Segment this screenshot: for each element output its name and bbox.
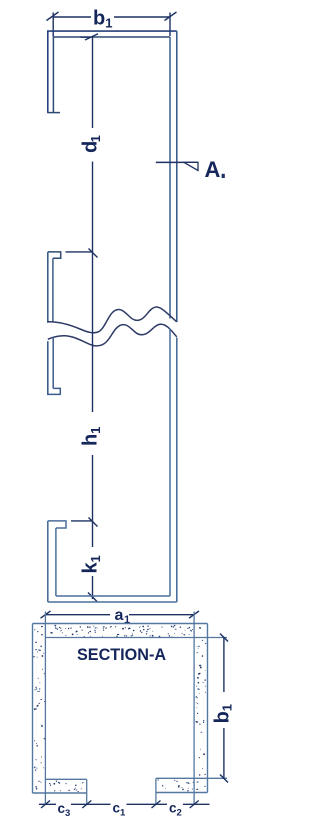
bottom flange inner line [56, 595, 170, 597]
left foot inner vertical [86, 779, 88, 805]
svg-text:1: 1 [88, 555, 103, 562]
web outer line upper [176, 31, 178, 322]
svg-text:1: 1 [220, 704, 235, 711]
web inner line lower [169, 329, 171, 597]
label h1 [80, 434, 102, 446]
web inner line upper [169, 37, 171, 319]
stipple rfoot [158, 779, 206, 791]
svg-text:SECTION-A: SECTION-A [77, 646, 166, 664]
break wave upper [48, 307, 177, 333]
left foot top line [45, 778, 86, 780]
extension to d1 end [66, 251, 93, 253]
section left inner vertical / extension [44, 612, 46, 805]
top lip foot cap [47, 112, 60, 114]
dimension h1 line [89, 252, 98, 527]
section outer box right [207, 624, 209, 793]
section right inner vertical / extension [193, 612, 195, 805]
dimension a1 line [41, 611, 200, 618]
right foot top line with b1 extension [156, 777, 227, 779]
label d1 [80, 135, 103, 153]
small mark after A [222, 174, 225, 178]
svg-text:1: 1 [120, 808, 126, 819]
extension to h1 end [71, 520, 93, 522]
section slab inner line with b1 extension [45, 637, 227, 639]
left inner line segment (hook step to upper wave) [52, 258, 54, 321]
section outer box top [33, 623, 208, 625]
svg-text:b: b [93, 7, 105, 29]
break wave lower [48, 324, 177, 346]
dimension b1 line top [47, 12, 177, 37]
dimension b1 right side [220, 634, 228, 783]
right foot bottom line [156, 792, 208, 794]
svg-text:3: 3 [65, 808, 70, 819]
svg-text:2: 2 [177, 808, 182, 819]
svg-text:b: b [211, 711, 233, 723]
left outer line segment (d1 hook to upper wave) [47, 252, 49, 323]
hook 2 top edge [48, 521, 66, 528]
bottom flange outer line [48, 601, 177, 603]
svg-text:a: a [115, 607, 124, 624]
section cut line A [156, 161, 198, 163]
dimension k1 line [88, 521, 97, 602]
svg-text:h: h [80, 434, 102, 446]
stipple slab [34, 625, 201, 638]
hook 1 top edge [48, 252, 61, 258]
left outer line (lower wave to L foot) [47, 341, 49, 394]
dimension c line [39, 801, 210, 809]
left foot bottom line [33, 792, 87, 794]
section cut flag triangle [184, 162, 198, 170]
svg-text:A: A [205, 157, 221, 182]
dimension d1 line [81, 34, 99, 258]
L foot cap [47, 388, 61, 394]
label b1 section [211, 704, 234, 723]
left inner line (lower wave to L foot) [52, 337, 54, 388]
top flange inner line [53, 37, 170, 113]
label k1 [80, 555, 103, 573]
svg-text:1: 1 [88, 135, 103, 142]
stipple lfoot [35, 781, 83, 793]
right foot inner vertical [155, 778, 157, 805]
svg-text:1: 1 [105, 16, 112, 31]
top flange outer line [48, 31, 177, 113]
left inner line bottom segment [55, 528, 57, 596]
section outer box left [32, 624, 34, 794]
svg-text:1: 1 [88, 427, 103, 434]
stipple rwall [195, 640, 206, 776]
stipple lwall [33, 642, 45, 771]
left outer line bottom segment [47, 521, 49, 602]
web outer line lower [176, 338, 178, 603]
